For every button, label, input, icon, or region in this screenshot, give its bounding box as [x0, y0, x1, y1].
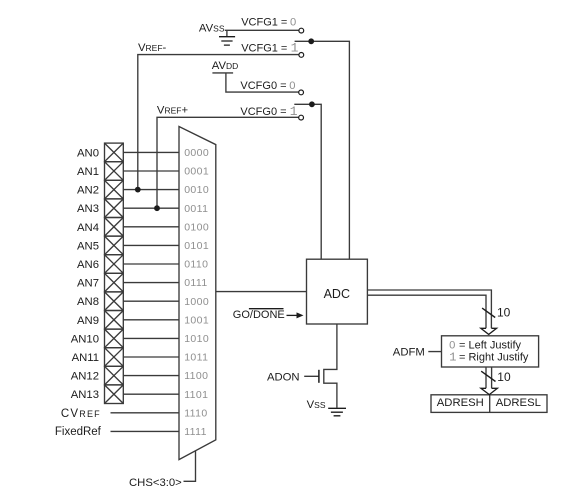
- svg-text:VCFG1 =: VCFG1 =: [241, 43, 287, 55]
- svg-text:0111: 0111: [184, 277, 207, 289]
- svg-text:AN4: AN4: [77, 222, 99, 234]
- svg-text:0000: 0000: [184, 147, 209, 159]
- svg-text:CHS<3:0>: CHS<3:0>: [129, 477, 182, 489]
- svg-text:VCFG0 =: VCFG0 =: [240, 80, 286, 92]
- svg-text:ADC: ADC: [324, 287, 350, 301]
- svg-text:1: 1: [290, 104, 298, 119]
- svg-text:AN10: AN10: [71, 333, 99, 345]
- svg-text:AN12: AN12: [71, 371, 99, 383]
- svg-text:0010: 0010: [184, 184, 209, 196]
- svg-text:= Right Justify: = Right Justify: [459, 352, 529, 364]
- svg-text:0011: 0011: [184, 203, 208, 215]
- svg-text:FixedRef: FixedRef: [55, 426, 102, 438]
- svg-text:10: 10: [497, 370, 511, 384]
- svg-text:10: 10: [497, 306, 511, 320]
- svg-text:1: 1: [449, 351, 456, 365]
- svg-text:1000: 1000: [184, 296, 209, 308]
- svg-text:AN11: AN11: [72, 352, 99, 364]
- svg-text:AN3: AN3: [77, 203, 99, 215]
- svg-text:1100: 1100: [184, 370, 208, 382]
- svg-text:0: 0: [290, 16, 296, 28]
- svg-text:0001: 0001: [184, 166, 209, 178]
- svg-text:VREF+: VREF+: [157, 105, 189, 117]
- svg-text:GO/DONE: GO/DONE: [233, 309, 285, 321]
- svg-text:0110: 0110: [184, 259, 208, 271]
- svg-text:0101: 0101: [184, 240, 209, 252]
- svg-text:= Left Justify: = Left Justify: [459, 339, 522, 351]
- svg-text:AN1: AN1: [77, 166, 99, 178]
- svg-text:ADRESL: ADRESL: [496, 397, 541, 409]
- svg-text:AN6: AN6: [77, 259, 99, 271]
- svg-text:AN5: AN5: [77, 240, 99, 252]
- svg-text:1: 1: [291, 41, 299, 56]
- svg-text:0: 0: [449, 339, 455, 351]
- svg-text:1011: 1011: [184, 352, 208, 364]
- svg-text:AVSS: AVSS: [199, 23, 225, 35]
- svg-text:AN7: AN7: [77, 278, 99, 290]
- svg-text:1111: 1111: [184, 426, 207, 438]
- svg-text:CVREF: CVREF: [61, 408, 101, 420]
- svg-text:ADFM: ADFM: [393, 347, 425, 359]
- svg-text:ADRESH: ADRESH: [437, 397, 484, 409]
- svg-text:VCFG0 =: VCFG0 =: [240, 106, 286, 118]
- svg-text:1010: 1010: [184, 333, 209, 345]
- svg-text:1001: 1001: [184, 314, 209, 326]
- svg-text:1101: 1101: [184, 389, 208, 401]
- svg-text:AN8: AN8: [77, 296, 99, 308]
- svg-text:ADON: ADON: [267, 371, 300, 383]
- svg-text:AVDD: AVDD: [212, 60, 239, 72]
- svg-text:1110: 1110: [184, 407, 207, 419]
- svg-text:VSS: VSS: [307, 399, 326, 411]
- svg-text:0: 0: [289, 80, 295, 92]
- svg-text:VREF-: VREF-: [138, 42, 167, 54]
- svg-text:AN2: AN2: [77, 185, 99, 197]
- svg-text:AN0: AN0: [77, 147, 99, 159]
- svg-text:AN9: AN9: [77, 315, 99, 327]
- svg-text:VCFG1 =: VCFG1 =: [241, 17, 287, 29]
- svg-text:AN13: AN13: [71, 389, 99, 401]
- svg-text:0100: 0100: [184, 221, 209, 233]
